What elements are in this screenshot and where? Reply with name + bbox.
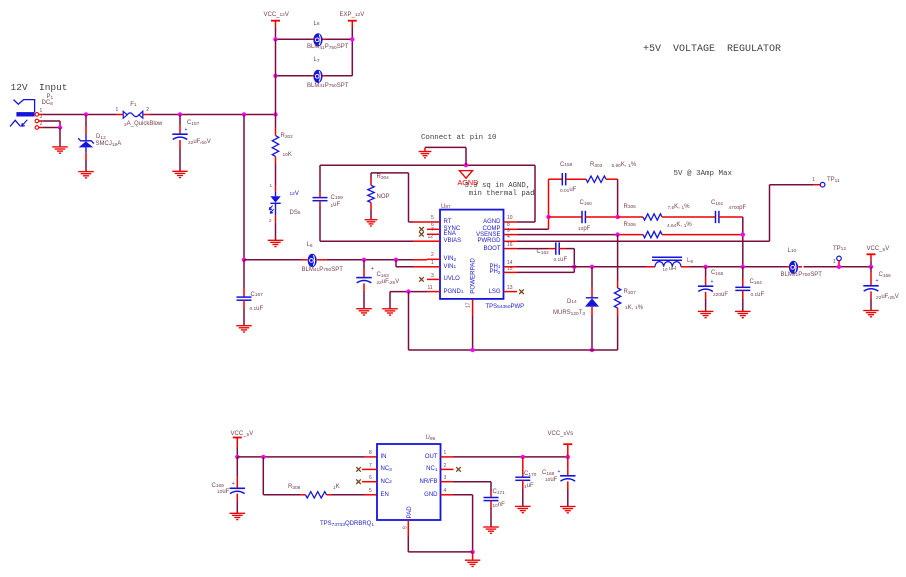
svg-text:9: 9 bbox=[402, 526, 408, 529]
svg-text:PAD: PAD bbox=[406, 506, 413, 519]
svg-text:POWERPAD: POWERPAD bbox=[469, 258, 476, 294]
svg-text:17: 17 bbox=[466, 302, 472, 308]
